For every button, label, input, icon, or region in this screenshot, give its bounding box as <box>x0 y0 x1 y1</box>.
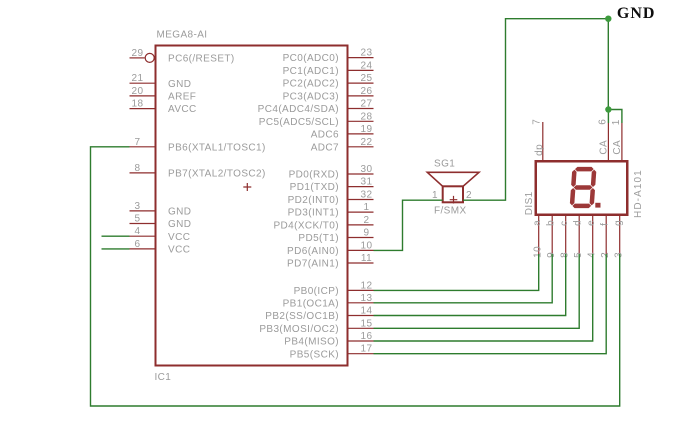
svg-text:6: 6 <box>598 119 609 125</box>
svg-text:31: 31 <box>361 177 373 188</box>
svg-text:PD0(RXD): PD0(RXD) <box>289 170 339 181</box>
pin 1 PD3(INT1) (right) <box>348 211 374 213</box>
pin 8 PB7(XTAL2/TOSC2) (left) <box>130 172 155 174</box>
svg-text:18: 18 <box>132 99 144 110</box>
svg-text:F/SMX: F/SMX <box>434 206 467 217</box>
pin 5 GND (left) <box>130 223 155 225</box>
svg-text:PC2(ADC2): PC2(ADC2) <box>283 79 339 90</box>
svg-text:a: a <box>532 220 543 226</box>
svg-text:AREF: AREF <box>168 92 196 103</box>
IC U1 MEGA8-AI box <box>156 46 348 366</box>
pin 11 PD7(AIN1) (right) <box>348 262 374 264</box>
wire IC pin10 PD6 to speaker pin1 <box>374 200 443 250</box>
pin 14 PB2(SS/OC1B) (right) <box>348 315 374 317</box>
wire VCC stub pin6 <box>102 248 130 250</box>
svg-text:11: 11 <box>361 253 372 264</box>
svg-text:PC3(ADC3): PC3(ADC3) <box>283 92 339 103</box>
svg-text:26: 26 <box>361 86 373 97</box>
pin 22 ADC7 (right) <box>348 146 374 148</box>
pin 19 ADC6 (right) <box>348 133 374 135</box>
svg-text:ADC6: ADC6 <box>311 130 339 141</box>
pin 3 GND (left) <box>130 210 155 212</box>
svg-text:DIS1: DIS1 <box>524 191 535 215</box>
svg-text:13: 13 <box>361 293 373 304</box>
svg-text:4: 4 <box>135 226 141 237</box>
svg-text:CA: CA <box>612 140 623 155</box>
pin 25 PC2(ADC2) (right) <box>348 82 374 84</box>
svg-text:AVCC: AVCC <box>168 104 197 115</box>
svg-text:f: f <box>599 223 610 226</box>
svg-text:PB4(MISO): PB4(MISO) <box>284 337 339 348</box>
speaker SG1 body box <box>443 186 463 202</box>
wire VCC stub pin4 <box>102 235 130 237</box>
svg-text:PB6(XTAL1/TOSC1): PB6(XTAL1/TOSC1) <box>168 142 266 153</box>
wire GND net down to display CA junction <box>607 19 609 110</box>
display pin 9 segment b (bottom) <box>551 216 553 254</box>
svg-text:VCC: VCC <box>168 245 190 256</box>
svg-text:SG1: SG1 <box>434 159 455 170</box>
svg-text:PB5(SCK): PB5(SCK) <box>290 349 339 360</box>
svg-text:g: g <box>613 220 624 226</box>
svg-text:PC4(ADC4/SDA): PC4(ADC4/SDA) <box>258 104 339 115</box>
pin 18 AVCC (left) <box>130 108 155 110</box>
pin 2 PD4(XCK/T0) (right) <box>348 224 374 226</box>
pin 15 PB3(MOSI/OC2) (right) <box>348 327 374 329</box>
pin 7 PB6(XTAL1/TOSC1) (left) <box>130 146 155 148</box>
pin 13 PB1(OC1A) (right) <box>348 302 374 304</box>
svg-text:PB2(SS/OC1B): PB2(SS/OC1B) <box>265 311 339 322</box>
svg-text:PB0(ICP): PB0(ICP) <box>294 286 339 297</box>
display pin 7 dp (top) <box>542 122 544 161</box>
pin 29 PC6(/RESET) (left) <box>130 57 145 59</box>
svg-text:dp: dp <box>534 144 545 156</box>
svg-text:PC6(/RESET): PC6(/RESET) <box>168 54 235 65</box>
wire IC pin7 PB6 to display seg g <box>91 147 620 406</box>
svg-text:19: 19 <box>361 124 373 135</box>
wire IC pin16 PB4 to display seg e <box>374 254 593 341</box>
svg-text:21: 21 <box>132 73 144 84</box>
svg-text:3: 3 <box>135 201 141 212</box>
svg-text:15: 15 <box>361 318 373 329</box>
junction at display CA pins <box>605 106 611 112</box>
pin 4 VCC (left) <box>130 235 155 237</box>
display decimal point <box>595 203 600 208</box>
pin 17 PB5(SCK) (right) <box>348 353 374 355</box>
svg-text:32: 32 <box>361 190 373 201</box>
wire speaker pin2 to GND net <box>463 19 608 201</box>
IC1 origin cross <box>243 183 251 191</box>
svg-text:1: 1 <box>611 119 622 125</box>
display pin 2 segment f (bottom) <box>605 216 607 254</box>
svg-text:7: 7 <box>532 119 543 125</box>
speaker SG1 plus origin <box>450 196 458 204</box>
junction at GND label <box>605 16 611 22</box>
svg-text:ADC7: ADC7 <box>311 142 339 153</box>
pin 28 PC5(ADC5/SCL) (right) <box>348 120 374 122</box>
svg-text:PC5(ADC5/SCL): PC5(ADC5/SCL) <box>259 117 339 128</box>
svg-text:2: 2 <box>466 190 472 201</box>
svg-text:27: 27 <box>361 99 373 110</box>
svg-text:MEGA8-AI: MEGA8-AI <box>157 30 208 41</box>
wire IC pin14 PB2 to display seg c <box>374 254 566 316</box>
speaker SG1 horn <box>427 172 479 186</box>
svg-text:6: 6 <box>135 239 141 250</box>
svg-text:b: b <box>545 220 556 226</box>
svg-text:20: 20 <box>132 86 144 97</box>
display pin 5 segment d (bottom) <box>578 216 580 254</box>
wire junction to display pin1 <box>608 110 622 124</box>
svg-text:9: 9 <box>364 228 370 239</box>
svg-text:PC0(ADC0): PC0(ADC0) <box>283 53 339 64</box>
svg-text:PD1(TXD): PD1(TXD) <box>290 182 339 193</box>
svg-text:25: 25 <box>361 73 373 84</box>
wire IC pin12 PB0 to display seg a <box>374 254 539 290</box>
svg-text:16: 16 <box>361 331 373 342</box>
svg-text:e: e <box>586 220 597 226</box>
svg-text:17: 17 <box>361 344 373 355</box>
svg-text:30: 30 <box>361 164 373 175</box>
svg-text:GND: GND <box>168 79 191 90</box>
svg-text:8: 8 <box>135 163 141 174</box>
svg-text:2: 2 <box>364 215 370 226</box>
svg-text:7: 7 <box>135 137 141 148</box>
pin 30 PD0(RXD) (right) <box>348 173 374 175</box>
display pin 8 segment c (bottom) <box>565 216 567 254</box>
pin 21 GND (left) <box>130 82 155 84</box>
wire IC pin15 PB3 to display seg d <box>374 254 580 328</box>
svg-text:HD-A101: HD-A101 <box>633 169 644 218</box>
display pin 4 segment e (bottom) <box>592 216 594 254</box>
display pin 6 CA (top) <box>607 123 609 161</box>
pin 27 PC4(ADC4/SDA) (right) <box>348 108 374 110</box>
svg-text:12: 12 <box>361 280 373 291</box>
svg-text:PD3(INT1): PD3(INT1) <box>288 208 339 219</box>
display digit 8 seven-segment <box>570 167 597 208</box>
svg-text:PD2(INT0): PD2(INT0) <box>288 195 339 206</box>
pin 26 PC3(ADC3) (right) <box>348 95 374 97</box>
svg-text:5: 5 <box>135 214 141 225</box>
pin 10 PD6(AIN0) (right) <box>348 249 374 251</box>
svg-text:PD6(AIN0): PD6(AIN0) <box>287 246 339 257</box>
svg-text:PD7(AIN1): PD7(AIN1) <box>287 259 339 270</box>
svg-text:29: 29 <box>132 48 144 59</box>
svg-text:c: c <box>559 220 570 225</box>
pin 23 PC0(ADC0) (right) <box>348 57 374 59</box>
pin 24 PC1(ADC1) (right) <box>348 69 374 71</box>
svg-text:23: 23 <box>361 48 373 59</box>
svg-text:PD4(XCK/T0): PD4(XCK/T0) <box>273 221 339 232</box>
pin 12 PB0(ICP) (right) <box>348 289 374 291</box>
svg-text:PB1(OC1A): PB1(OC1A) <box>283 298 339 309</box>
svg-text:CA: CA <box>599 140 610 155</box>
svg-text:PC1(ADC1): PC1(ADC1) <box>283 66 339 77</box>
svg-text:10: 10 <box>361 240 373 251</box>
svg-text:d: d <box>572 220 583 226</box>
display pin 10 segment a (bottom) <box>538 216 540 254</box>
svg-text:24: 24 <box>361 60 373 71</box>
svg-text:28: 28 <box>361 111 373 122</box>
pin 16 PB4(MISO) (right) <box>348 340 374 342</box>
svg-text:GND: GND <box>617 5 656 22</box>
display pin 1 CA (top) <box>621 123 623 161</box>
svg-text:GND: GND <box>168 207 191 218</box>
svg-text:GND: GND <box>168 219 191 230</box>
svg-text:1: 1 <box>432 190 438 201</box>
svg-text:IC1: IC1 <box>155 372 172 383</box>
pin 20 AREF (left) <box>130 95 155 97</box>
svg-text:PB7(XTAL2/TOSC2): PB7(XTAL2/TOSC2) <box>168 169 266 180</box>
display DIS1 box <box>536 161 628 215</box>
pin 6 VCC (left) <box>130 248 155 250</box>
display pin 3 segment g (bottom) <box>619 216 621 254</box>
svg-text:VCC: VCC <box>168 232 190 243</box>
svg-text:PB3(MOSI/OC2): PB3(MOSI/OC2) <box>259 324 339 335</box>
wire IC pin13 PB1 to display seg b <box>374 254 553 303</box>
wire junction to display pin6 <box>607 110 609 124</box>
pin 31 PD1(TXD) (right) <box>348 186 374 188</box>
wire IC pin17 PB5 to display seg f <box>374 254 607 354</box>
pin 9 PD5(T1) (right) <box>348 237 374 239</box>
svg-text:1: 1 <box>364 202 370 213</box>
svg-text:14: 14 <box>361 306 373 317</box>
svg-text:PD5(T1): PD5(T1) <box>298 233 339 244</box>
svg-text:22: 22 <box>361 137 373 148</box>
pin 32 PD2(INT0) (right) <box>348 199 374 201</box>
